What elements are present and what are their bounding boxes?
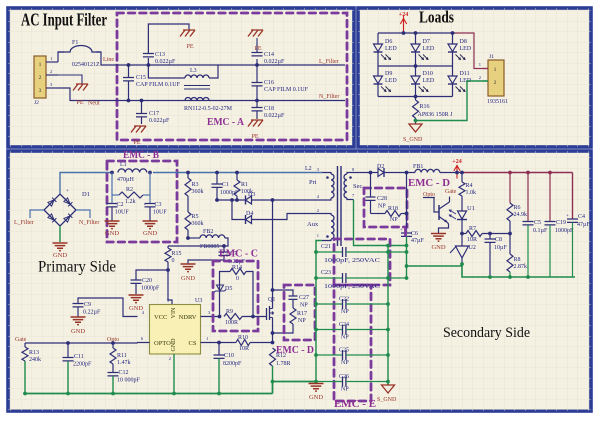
svg-text:+: + bbox=[566, 214, 569, 219]
capacitor C20 bbox=[136, 270, 168, 280]
ground GND opto transistor bbox=[431, 234, 446, 242]
shunt regulator U2 bbox=[456, 246, 469, 258]
svg-text:GND: GND bbox=[431, 244, 445, 251]
svg-text:PE: PE bbox=[133, 140, 140, 146]
wire snubber node bbox=[217, 199, 246, 201]
svg-text:VIN: VIN bbox=[171, 307, 177, 318]
capacitor C10 bbox=[218, 343, 220, 355]
svg-text:PE: PE bbox=[251, 134, 258, 140]
diode D3 bbox=[246, 196, 252, 204]
svg-text:R4: R4 bbox=[466, 183, 473, 189]
svg-text:2: 2 bbox=[494, 80, 497, 86]
inductor L1 bbox=[113, 166, 153, 175]
svg-text:Sec: Sec bbox=[353, 183, 363, 190]
svg-text:1.78R: 1.78R bbox=[276, 361, 291, 367]
svg-text:D8: D8 bbox=[460, 39, 467, 45]
wire loads bottom rail bbox=[378, 96, 453, 98]
svg-text:R13: R13 bbox=[29, 350, 39, 356]
svg-text:FB1: FB1 bbox=[413, 164, 423, 170]
capacitor C6 bbox=[406, 214, 408, 233]
svg-text:EMC - A: EMC - A bbox=[207, 117, 244, 128]
svg-text:NP: NP bbox=[378, 204, 386, 210]
capacitor C18 bbox=[256, 101, 258, 108]
svg-text:2.87k: 2.87k bbox=[514, 264, 528, 270]
Y-capacitor C26 bbox=[316, 381, 343, 383]
svg-text:C5: C5 bbox=[534, 220, 541, 226]
PE earth below C17 bbox=[131, 126, 146, 133]
wire bus into gnd bbox=[273, 381, 317, 383]
svg-text:D10: D10 bbox=[423, 71, 433, 77]
optocoupler LED U1 bbox=[458, 211, 467, 219]
svg-text:Line: Line bbox=[103, 57, 114, 63]
svg-text:C25: C25 bbox=[339, 348, 349, 354]
diode D4 bbox=[232, 200, 246, 220]
svg-text:C12: C12 bbox=[119, 370, 129, 376]
svg-text:CAP FILM 0.1UF: CAP FILM 0.1UF bbox=[264, 87, 309, 93]
resistor R1 bbox=[235, 171, 239, 175]
capacitor C11 bbox=[66, 341, 70, 345]
svg-text:NP: NP bbox=[341, 360, 349, 366]
svg-text:RN112-0.5-02-27M: RN112-0.5-02-27M bbox=[184, 106, 233, 112]
svg-text:360k: 360k bbox=[192, 221, 204, 227]
svg-text:0: 0 bbox=[172, 258, 175, 264]
svg-text:D4: D4 bbox=[246, 211, 253, 217]
MOSFET Q1 bbox=[264, 316, 267, 318]
svg-text:C15: C15 bbox=[136, 75, 146, 81]
svg-text:Secondary Side: Secondary Side bbox=[443, 325, 530, 341]
Y-capacitor C22 bbox=[316, 303, 343, 305]
ground GND C7 bbox=[181, 264, 196, 272]
wire Line bus bbox=[117, 64, 257, 66]
capacitor C8 bbox=[488, 232, 492, 236]
wire fuse to Line bbox=[96, 52, 117, 65]
common-mode choke L3 bbox=[148, 65, 185, 78]
svg-text:D6: D6 bbox=[385, 39, 392, 45]
svg-text:C22: C22 bbox=[339, 297, 349, 303]
svg-text:U3: U3 bbox=[195, 298, 202, 304]
svg-text:+: + bbox=[106, 203, 109, 208]
svg-text:C9: C9 bbox=[84, 302, 91, 308]
svg-text:VCC: VCC bbox=[154, 314, 167, 321]
svg-text:C1: C1 bbox=[222, 182, 229, 188]
J1 pin 1 stub bbox=[483, 68, 488, 70]
svg-text:Q1: Q1 bbox=[268, 297, 275, 303]
EMC - E dashed box upper bbox=[334, 239, 390, 285]
svg-text:LED: LED bbox=[385, 46, 397, 52]
LED D10 bbox=[415, 66, 417, 76]
EMC - D upper dashed box bbox=[364, 188, 407, 227]
wire L3 out jog bbox=[209, 65, 218, 78]
resistor R15 bbox=[165, 248, 171, 262]
resistor R13 bbox=[24, 343, 26, 347]
svg-text:D2: D2 bbox=[377, 164, 384, 170]
svg-text:R1: R1 bbox=[241, 182, 248, 188]
svg-text:C13: C13 bbox=[155, 52, 165, 58]
wire Q1 source bbox=[272, 318, 274, 343]
svg-text:1.2k: 1.2k bbox=[125, 199, 136, 205]
svg-text:R11: R11 bbox=[117, 353, 127, 359]
svg-text:Loads: Loads bbox=[419, 8, 454, 27]
wire D4 to aux bbox=[252, 214, 323, 220]
svg-text:C8: C8 bbox=[495, 237, 502, 243]
svg-text:C4: C4 bbox=[578, 214, 585, 220]
wire EMC-B right vertical bbox=[149, 173, 151, 204]
fuse F1 bbox=[58, 52, 64, 62]
LED D11 bbox=[452, 66, 454, 76]
connector J2 bbox=[34, 56, 46, 98]
wire loads mid rail bbox=[378, 65, 453, 67]
resistor R5 bbox=[185, 212, 191, 230]
svg-text:GND: GND bbox=[143, 230, 157, 237]
svg-text:0.022µF: 0.022µF bbox=[149, 118, 170, 124]
svg-text:+: + bbox=[144, 203, 147, 208]
svg-text:GND: GND bbox=[181, 275, 195, 282]
wire bridge plus to rail bbox=[60, 173, 117, 195]
svg-text:NDRV: NDRV bbox=[179, 314, 197, 321]
capacitor C9 bbox=[78, 298, 138, 317]
wire J1 pin2 green return bbox=[416, 81, 489, 121]
resistor R12 bbox=[270, 348, 276, 366]
svg-text:OPTO: OPTO bbox=[154, 340, 171, 347]
svg-text:GND: GND bbox=[53, 252, 67, 259]
resistor R8 bbox=[507, 254, 513, 272]
J1 pin 2 stub bbox=[483, 80, 488, 82]
ground GND C9 bbox=[71, 317, 86, 325]
svg-text:NP: NP bbox=[298, 318, 306, 324]
snubber resistor R17 bbox=[290, 308, 296, 324]
svg-text:Pri: Pri bbox=[309, 179, 317, 186]
resistor R4 bbox=[461, 173, 463, 183]
svg-text:L1: L1 bbox=[120, 162, 127, 168]
wire EMC-B left vertical bbox=[111, 173, 113, 204]
svg-text:R7: R7 bbox=[469, 226, 476, 232]
resistor R2 bbox=[112, 194, 119, 196]
svg-text:+: + bbox=[66, 189, 69, 194]
svg-text:2: 2 bbox=[317, 208, 319, 213]
svg-text:R18: R18 bbox=[388, 206, 398, 212]
svg-text:C6: C6 bbox=[411, 231, 418, 237]
svg-text:L3: L3 bbox=[190, 68, 197, 74]
svg-text:1: 1 bbox=[479, 62, 481, 67]
resistor R7 bbox=[466, 231, 482, 237]
svg-text:2: 2 bbox=[479, 75, 481, 80]
svg-text:10 000pF: 10 000pF bbox=[117, 378, 141, 384]
svg-text:D3: D3 bbox=[248, 192, 255, 198]
svg-text:10UF: 10UF bbox=[115, 210, 129, 216]
svg-text:470µH: 470µH bbox=[117, 177, 134, 183]
capacitor C3 bbox=[145, 204, 156, 207]
wire bridge AC right bbox=[76, 210, 90, 218]
transformer secondary winding bbox=[347, 173, 371, 175]
svg-text:1000pF, 250VAC: 1000pF, 250VAC bbox=[324, 258, 380, 264]
svg-text:240k: 240k bbox=[29, 357, 41, 363]
svg-text:U2: U2 bbox=[469, 245, 476, 251]
svg-text:1: 1 bbox=[39, 62, 42, 68]
svg-text:R16: R16 bbox=[420, 104, 430, 110]
svg-text:L_Filter: L_Filter bbox=[14, 220, 34, 226]
svg-text:3: 3 bbox=[39, 88, 42, 94]
ground GND C2 bbox=[105, 221, 120, 229]
svg-text:10R: 10R bbox=[239, 346, 249, 352]
J2 pin 3 stub bbox=[46, 87, 58, 89]
U3 NDRV pin bbox=[201, 316, 220, 318]
svg-text:24.9k: 24.9k bbox=[514, 212, 528, 218]
wire bridge minus to GND bbox=[59, 226, 61, 242]
capacitor C12 bbox=[112, 364, 114, 372]
svg-text:R9: R9 bbox=[226, 309, 233, 315]
resistor R3 bbox=[186, 171, 190, 175]
svg-text:1: 1 bbox=[494, 67, 497, 73]
svg-text:R2: R2 bbox=[126, 187, 133, 193]
svg-text:Primary Side: Primary Side bbox=[38, 259, 116, 276]
svg-text:100R: 100R bbox=[225, 320, 238, 326]
resistor R10 bbox=[236, 340, 250, 346]
svg-text:C10: C10 bbox=[224, 353, 234, 359]
svg-text:C16: C16 bbox=[264, 80, 274, 86]
svg-text:1000pF, 250VAC: 1000pF, 250VAC bbox=[324, 284, 380, 290]
svg-text:02540121Z: 02540121Z bbox=[72, 62, 100, 68]
LED D9 bbox=[377, 66, 379, 76]
wire aux return to primary gnd rail bbox=[316, 241, 322, 382]
svg-text:C23: C23 bbox=[321, 270, 331, 276]
wire snubber to rail bbox=[406, 173, 408, 214]
svg-text:NP: NP bbox=[390, 217, 398, 223]
ground GND C3 bbox=[143, 221, 158, 229]
svg-text:L2: L2 bbox=[305, 166, 312, 172]
svg-text:LED: LED bbox=[385, 78, 397, 84]
svg-text:S_GND: S_GND bbox=[377, 397, 397, 403]
svg-text:EMC - C: EMC - C bbox=[219, 249, 258, 260]
IC U3 controller bbox=[150, 305, 201, 355]
U3 CS pin bbox=[201, 342, 237, 344]
wire Q1 drain bbox=[272, 200, 274, 309]
svg-text:D5: D5 bbox=[225, 286, 232, 292]
svg-text:+24: +24 bbox=[452, 159, 461, 165]
capacitor C1 bbox=[215, 171, 219, 175]
svg-text:R14: R14 bbox=[232, 265, 242, 271]
capacitor C15 bbox=[128, 65, 130, 77]
svg-text:C3: C3 bbox=[155, 202, 162, 208]
PE earth above C14 bbox=[248, 30, 263, 37]
svg-text:10UF: 10UF bbox=[153, 210, 167, 216]
Y-capacitor C23 bbox=[316, 277, 343, 279]
svg-text:0.22µF: 0.22µF bbox=[83, 310, 101, 316]
svg-text:0.022µF: 0.022µF bbox=[155, 59, 176, 65]
svg-text:360k: 360k bbox=[192, 189, 204, 195]
svg-text:NP: NP bbox=[341, 387, 349, 393]
ferrite bead FB2 bbox=[186, 236, 190, 240]
wire Neut from J2 pin3 bbox=[58, 88, 345, 101]
capacitor C13 bbox=[147, 58, 149, 65]
svg-text:NP: NP bbox=[341, 335, 349, 341]
svg-text:R6: R6 bbox=[514, 205, 521, 211]
svg-text:10R: 10R bbox=[467, 237, 477, 243]
svg-text:PE: PE bbox=[254, 46, 261, 52]
ground GND bridge bbox=[53, 243, 68, 251]
svg-text:J2: J2 bbox=[34, 100, 39, 106]
connector J1 bbox=[488, 60, 504, 96]
opto transistor bbox=[423, 198, 439, 213]
svg-text:C19: C19 bbox=[556, 220, 566, 226]
capacitor C16 bbox=[256, 65, 258, 82]
svg-text:N_Filter: N_Filter bbox=[319, 94, 339, 100]
svg-text:Aux: Aux bbox=[307, 221, 319, 228]
resistor R14 bbox=[220, 272, 231, 317]
ground GND C20 bbox=[129, 295, 144, 303]
svg-text:0.022µF: 0.022µF bbox=[264, 59, 285, 65]
svg-text:R12: R12 bbox=[276, 353, 286, 359]
svg-text:D7: D7 bbox=[423, 39, 430, 45]
svg-text:CAP FILM 0.1UF: CAP FILM 0.1UF bbox=[136, 82, 181, 88]
svg-text:C18: C18 bbox=[264, 106, 274, 112]
svg-text:PE: PE bbox=[186, 44, 193, 50]
svg-text:C17: C17 bbox=[149, 111, 159, 117]
J2 pin 1 stub bbox=[46, 61, 58, 63]
svg-text:1: 1 bbox=[50, 56, 52, 61]
wire bridge AC left bbox=[30, 210, 44, 218]
EMC - D to EMC - E dash connector bbox=[404, 229, 407, 239]
wire primary ground bus bbox=[25, 393, 273, 395]
svg-text:U1: U1 bbox=[467, 205, 475, 212]
U3 GND pin bbox=[173, 354, 175, 394]
wire secondary return bbox=[354, 200, 407, 246]
svg-text:1935161: 1935161 bbox=[487, 99, 508, 105]
PE earth below C18 bbox=[248, 120, 263, 127]
svg-text:C11: C11 bbox=[74, 354, 84, 360]
svg-text:CS: CS bbox=[189, 340, 197, 347]
capacitor C4 bbox=[572, 173, 574, 219]
svg-text:2: 2 bbox=[39, 75, 42, 81]
svg-text:C14: C14 bbox=[264, 52, 274, 58]
ground S_GND secondary rail bbox=[387, 382, 389, 386]
svg-text:GND: GND bbox=[105, 230, 119, 237]
EMC - B dashed box bbox=[107, 161, 177, 242]
svg-text:Gate: Gate bbox=[15, 337, 27, 343]
snubber capacitor C28 bbox=[370, 173, 372, 197]
PE earth at J2 pin2 bbox=[58, 75, 82, 84]
svg-text:PE: PE bbox=[76, 100, 83, 106]
snubber resistor R18 bbox=[371, 213, 386, 215]
wire rail FB1 to +24 bbox=[440, 172, 462, 174]
svg-text:R3: R3 bbox=[192, 182, 199, 188]
svg-text:0.022µF: 0.022µF bbox=[264, 113, 285, 119]
capacitor C7 bbox=[223, 246, 225, 252]
svg-text:C24: C24 bbox=[339, 322, 349, 328]
ferrite bead FB1 bbox=[405, 171, 409, 175]
svg-text:2: 2 bbox=[50, 69, 52, 74]
svg-text:Neut: Neut bbox=[88, 101, 100, 107]
wire loads top rail bbox=[378, 32, 455, 34]
svg-text:+: + bbox=[400, 228, 403, 233]
LED D8 bbox=[452, 33, 454, 44]
svg-text:1.47k: 1.47k bbox=[117, 360, 131, 366]
svg-text:D1: D1 bbox=[82, 191, 90, 198]
svg-text:AP836 150R J: AP836 150R J bbox=[418, 112, 454, 118]
svg-text:NP: NP bbox=[341, 309, 349, 315]
capacitor C5 bbox=[527, 173, 529, 222]
wire secondary ground bus bbox=[407, 265, 463, 267]
svg-text:R10: R10 bbox=[238, 335, 248, 341]
svg-text:R17: R17 bbox=[297, 311, 307, 317]
svg-text:R15: R15 bbox=[172, 251, 182, 257]
Y-capacitor C21 bbox=[316, 251, 343, 253]
svg-text:C28: C28 bbox=[377, 196, 387, 202]
PE earth above C13 bbox=[180, 30, 195, 37]
Y-capacitor C25 bbox=[316, 354, 343, 356]
svg-text:D11: D11 bbox=[460, 71, 470, 77]
svg-text:C2: C2 bbox=[117, 202, 124, 208]
capacitor C14 bbox=[256, 59, 258, 65]
svg-text:47µF: 47µF bbox=[577, 222, 590, 228]
wire secondary gnd rail right bbox=[387, 246, 389, 386]
zener diode D5 bbox=[217, 285, 224, 291]
wire FB2 to VIN node bbox=[168, 238, 228, 246]
svg-text:1: 1 bbox=[317, 233, 319, 238]
svg-text:D9: D9 bbox=[385, 71, 392, 77]
svg-text:AC Input Filter: AC Input Filter bbox=[21, 10, 107, 30]
svg-text:Gate: Gate bbox=[445, 189, 457, 195]
svg-text:10µF: 10µF bbox=[494, 245, 507, 251]
transformer aux winding bbox=[322, 214, 331, 216]
svg-text:LED: LED bbox=[423, 78, 435, 84]
Y-capacitor C24 bbox=[316, 329, 343, 331]
svg-text:2: 2 bbox=[169, 356, 171, 361]
capacitor C19 bbox=[549, 173, 551, 222]
svg-text:FB0805: FB0805 bbox=[200, 244, 219, 250]
svg-text:0: 0 bbox=[236, 276, 239, 282]
ground S_GND loads bbox=[409, 124, 422, 132]
transformer L2 core bbox=[338, 166, 342, 246]
svg-text:LED: LED bbox=[423, 46, 435, 52]
EMC - A dashed box bbox=[117, 13, 347, 140]
svg-text:C27: C27 bbox=[299, 295, 309, 301]
svg-text:L_Filter: L_Filter bbox=[319, 59, 339, 65]
svg-text:GND: GND bbox=[309, 394, 323, 401]
svg-text:N_Filter: N_Filter bbox=[79, 220, 99, 226]
EMC - C dashed box bbox=[213, 261, 258, 331]
svg-text:S_GND: S_GND bbox=[403, 137, 423, 143]
resistor R11 bbox=[111, 341, 115, 345]
svg-text:1: 1 bbox=[206, 336, 208, 341]
wire main rail through EMC-B bbox=[117, 172, 322, 174]
diode D2 bbox=[369, 171, 373, 175]
svg-text:EMC - B: EMC - B bbox=[123, 150, 159, 161]
svg-text:F1: F1 bbox=[72, 40, 78, 46]
J2 pin 2 stub bbox=[46, 74, 58, 76]
svg-text:FB2: FB2 bbox=[203, 229, 213, 235]
EMC - E dashed box lower bbox=[334, 285, 371, 401]
svg-text:NP: NP bbox=[300, 303, 308, 309]
svg-text:C20: C20 bbox=[142, 278, 152, 284]
svg-text:EMC - D: EMC - D bbox=[408, 177, 450, 189]
wire clamp to primary pin4 bbox=[273, 199, 323, 201]
svg-text:J1: J1 bbox=[489, 54, 494, 60]
svg-text:8200pF: 8200pF bbox=[223, 361, 242, 367]
bridge rectifier D1 bbox=[44, 194, 76, 226]
snubber capacitor C27 bbox=[273, 290, 294, 296]
LED D7 bbox=[415, 33, 417, 44]
LED D6 bbox=[377, 33, 379, 44]
svg-text:C21: C21 bbox=[321, 244, 331, 250]
svg-text:GND: GND bbox=[71, 328, 85, 335]
svg-text:LED: LED bbox=[460, 46, 472, 52]
resistor R16 bbox=[415, 97, 417, 101]
svg-text:C26: C26 bbox=[339, 374, 349, 380]
resistor R6 bbox=[509, 173, 511, 204]
svg-text:1.0k: 1.0k bbox=[466, 190, 477, 196]
svg-text:1000pF: 1000pF bbox=[555, 228, 574, 234]
wire +24 rail maroon bbox=[462, 172, 573, 174]
